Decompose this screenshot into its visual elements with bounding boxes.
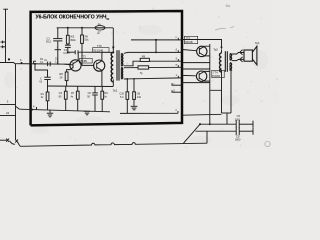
label box Q1 type xyxy=(79,55,92,64)
wire w0 xyxy=(131,39,182,41)
svg-text:У6-БЛОК ОКОНЕЧНОГО УНЧ: У6-БЛОК ОКОНЕЧНОГО УНЧ xyxy=(36,14,107,20)
resistor Re xyxy=(126,79,129,113)
paper background xyxy=(0,0,279,150)
ground G1 xyxy=(47,110,53,117)
svg-text:3000: 3000 xyxy=(235,118,241,121)
svg-text:ГТ9: ГТ9 xyxy=(97,44,102,48)
label 4 pin xyxy=(33,104,37,109)
wire slant to rail xyxy=(16,106,20,109)
transformer Tr2 secondary b xyxy=(230,63,232,71)
junction dot rail2 xyxy=(209,123,211,125)
junction dot Rf xyxy=(133,78,135,80)
transformer Tr1 secondary b xyxy=(121,68,122,79)
transistor Q3 xyxy=(197,46,210,56)
Tr2 arrow xyxy=(220,47,222,50)
svg-text:5,0: 5,0 xyxy=(120,96,124,99)
svg-text:40: 40 xyxy=(106,17,110,21)
svg-text:Вы: Вы xyxy=(226,4,231,8)
fuse Pr1 oval xyxy=(95,26,105,30)
input terminal wire (left vertical) xyxy=(5,9,7,63)
label R8 xyxy=(59,72,63,79)
label Rb xyxy=(71,92,75,98)
coupling wire y52 xyxy=(68,51,75,53)
wire sec a bottom xyxy=(124,61,182,66)
label C5 xyxy=(235,114,241,121)
capacitor C4 xyxy=(44,77,50,92)
resistor R5 xyxy=(66,28,69,44)
wire from block bottom xyxy=(183,113,222,116)
wire sec top xyxy=(124,51,182,54)
node 6 dot xyxy=(21,62,23,64)
label C1 xyxy=(46,36,52,43)
transformer Tr2 primary winding xyxy=(220,53,222,72)
transformer Tr2 core xyxy=(225,51,227,72)
label box Q3 type xyxy=(184,36,197,44)
label Rf xyxy=(137,93,142,99)
svg-text:3000: 3000 xyxy=(235,139,241,142)
faint pencil marks xyxy=(215,27,234,30)
label R5 xyxy=(70,35,76,42)
signal dot xyxy=(8,58,10,60)
wire ow4 xyxy=(182,68,210,70)
rail C6 xyxy=(196,130,237,132)
Tr1 secondary spine b xyxy=(120,68,122,79)
block border U6 xyxy=(31,11,182,125)
label box Q2 type xyxy=(93,44,109,53)
Tr1 primary bottom lead xyxy=(112,79,114,86)
wire w0 drop xyxy=(155,40,157,53)
pin tick input xyxy=(34,61,37,63)
terminal tick 1 xyxy=(1,41,6,44)
diagonal to ground rail xyxy=(184,124,201,143)
svg-text:R8: R8 xyxy=(59,72,63,76)
transistor Q2 xyxy=(94,52,105,86)
capacitor C5 xyxy=(236,120,239,128)
transformer Tr1 primary arrow xyxy=(112,28,115,53)
rail C5 end xyxy=(252,121,254,128)
C4 chain tap xyxy=(34,63,48,77)
transistor Q4 xyxy=(196,71,209,81)
wire sec bottom xyxy=(124,78,182,79)
speaker wire top xyxy=(232,53,244,55)
svg-text:140: 140 xyxy=(137,96,142,99)
svg-text:50,0: 50,0 xyxy=(46,40,52,44)
Tr2 primary bottom lead xyxy=(210,70,222,90)
label Cc xyxy=(87,92,91,98)
terminal 3 stub xyxy=(0,104,16,106)
bottom ground rail xyxy=(21,143,208,147)
wire ow6 xyxy=(182,82,210,84)
capacitor C2 xyxy=(65,44,71,52)
svg-text:Тр1: Тр1 xyxy=(113,88,118,92)
chevron bottom xyxy=(240,57,243,62)
title text xyxy=(36,14,110,21)
capacitor Cc bottom row xyxy=(92,86,98,111)
Tr2 secondary spine b xyxy=(229,63,231,71)
resistor Rd bottom row xyxy=(101,86,104,111)
svg-text:R9: R9 xyxy=(142,54,146,58)
ground G3 xyxy=(131,99,138,109)
resistor R10 inline xyxy=(138,66,149,69)
resistor R9 inline xyxy=(140,58,149,61)
capacitor C2 inline input xyxy=(48,62,51,67)
speaker Gr1 xyxy=(244,46,257,65)
svg-text:П201Б: П201Б xyxy=(212,75,220,78)
svg-text:П13/14Б: П13/14Б xyxy=(93,48,103,52)
resistor R8 xyxy=(65,72,68,86)
label C2 xyxy=(63,49,70,55)
svg-text:П201Б: П201Б xyxy=(185,41,193,44)
junction wire-primary xyxy=(112,51,114,53)
terminal 24 stub xyxy=(0,115,16,117)
label C6 xyxy=(235,135,241,142)
wire input horizontal xyxy=(0,63,70,65)
junction dot Re xyxy=(126,78,128,80)
label Rx smudge xyxy=(40,58,44,64)
ground rail mid xyxy=(48,85,114,88)
svg-text:Ж5: Ж5 xyxy=(70,35,74,39)
capacitor C1 xyxy=(53,28,62,64)
svg-text:390к: 390к xyxy=(70,38,76,42)
ground G2 xyxy=(84,111,90,115)
Tr2 secondary spine a xyxy=(229,54,231,61)
terminal tick 2 xyxy=(1,45,6,48)
resistor Ra bottom row xyxy=(64,86,67,110)
vertical link xyxy=(206,131,208,143)
label C4 xyxy=(39,77,42,83)
label box Q4 type xyxy=(212,70,224,78)
wire stub t xyxy=(172,84,182,86)
rail C6 end xyxy=(252,128,254,135)
rail bottom right xyxy=(120,112,178,114)
rail C5 xyxy=(200,123,236,125)
wire ow2 Q3 base xyxy=(182,50,196,51)
resistor R12 xyxy=(46,92,49,110)
resistor Rb bottom row xyxy=(76,86,79,111)
junction dot C1-base xyxy=(57,63,59,65)
junction dot C2-wire xyxy=(67,51,69,53)
resistor Rf xyxy=(133,79,136,100)
junction dot rail xyxy=(199,123,201,125)
svg-text:ГТ2: ГТ2 xyxy=(81,55,86,59)
svg-text:П13Б: П13Б xyxy=(80,59,87,63)
label Ra xyxy=(59,92,63,98)
switch / link left xyxy=(0,139,21,147)
top supply rail xyxy=(57,27,113,29)
secondary drop wires xyxy=(221,90,223,113)
wire ow5 Q4 base xyxy=(182,74,196,76)
svg-text:R6: R6 xyxy=(85,34,89,38)
wire sec b top xyxy=(124,66,182,68)
label Cx smudge xyxy=(55,57,59,63)
Tr1 secondary spine a xyxy=(120,54,122,66)
capacitor C3 inline xyxy=(75,50,78,54)
label Rd xyxy=(104,92,108,98)
svg-text:24: 24 xyxy=(6,111,10,115)
wire ow1 xyxy=(182,40,222,48)
wire stub 5 xyxy=(172,91,182,93)
label Re xyxy=(119,93,124,99)
transformer Tr1 core xyxy=(117,50,119,80)
svg-text:Гр1: Гр1 xyxy=(255,41,260,45)
label R12 xyxy=(41,93,45,99)
svg-text:Тр2: Тр2 xyxy=(213,47,218,51)
transformer Tr1 secondary a xyxy=(121,54,123,66)
speaker wire bottom xyxy=(232,59,244,60)
wire vertical V1 xyxy=(15,64,17,140)
transformer Tr2 secondary a xyxy=(230,54,232,60)
node dots on top rail xyxy=(67,27,69,29)
wire ow3 xyxy=(182,62,210,64)
svg-text:Д7: Д7 xyxy=(97,31,101,35)
collector rail xyxy=(209,44,211,124)
capacitor C6 xyxy=(236,127,239,135)
chevron top xyxy=(240,50,243,55)
rail dot xyxy=(31,109,33,111)
bottom interior rail xyxy=(20,109,111,112)
resistor R6 xyxy=(81,28,94,66)
label R6 xyxy=(84,34,89,41)
pin ticks right edge xyxy=(172,36,178,113)
transformer Tr1 primary winding xyxy=(111,53,113,82)
transistor Q1 xyxy=(64,52,81,72)
faint hole circle xyxy=(265,141,270,146)
